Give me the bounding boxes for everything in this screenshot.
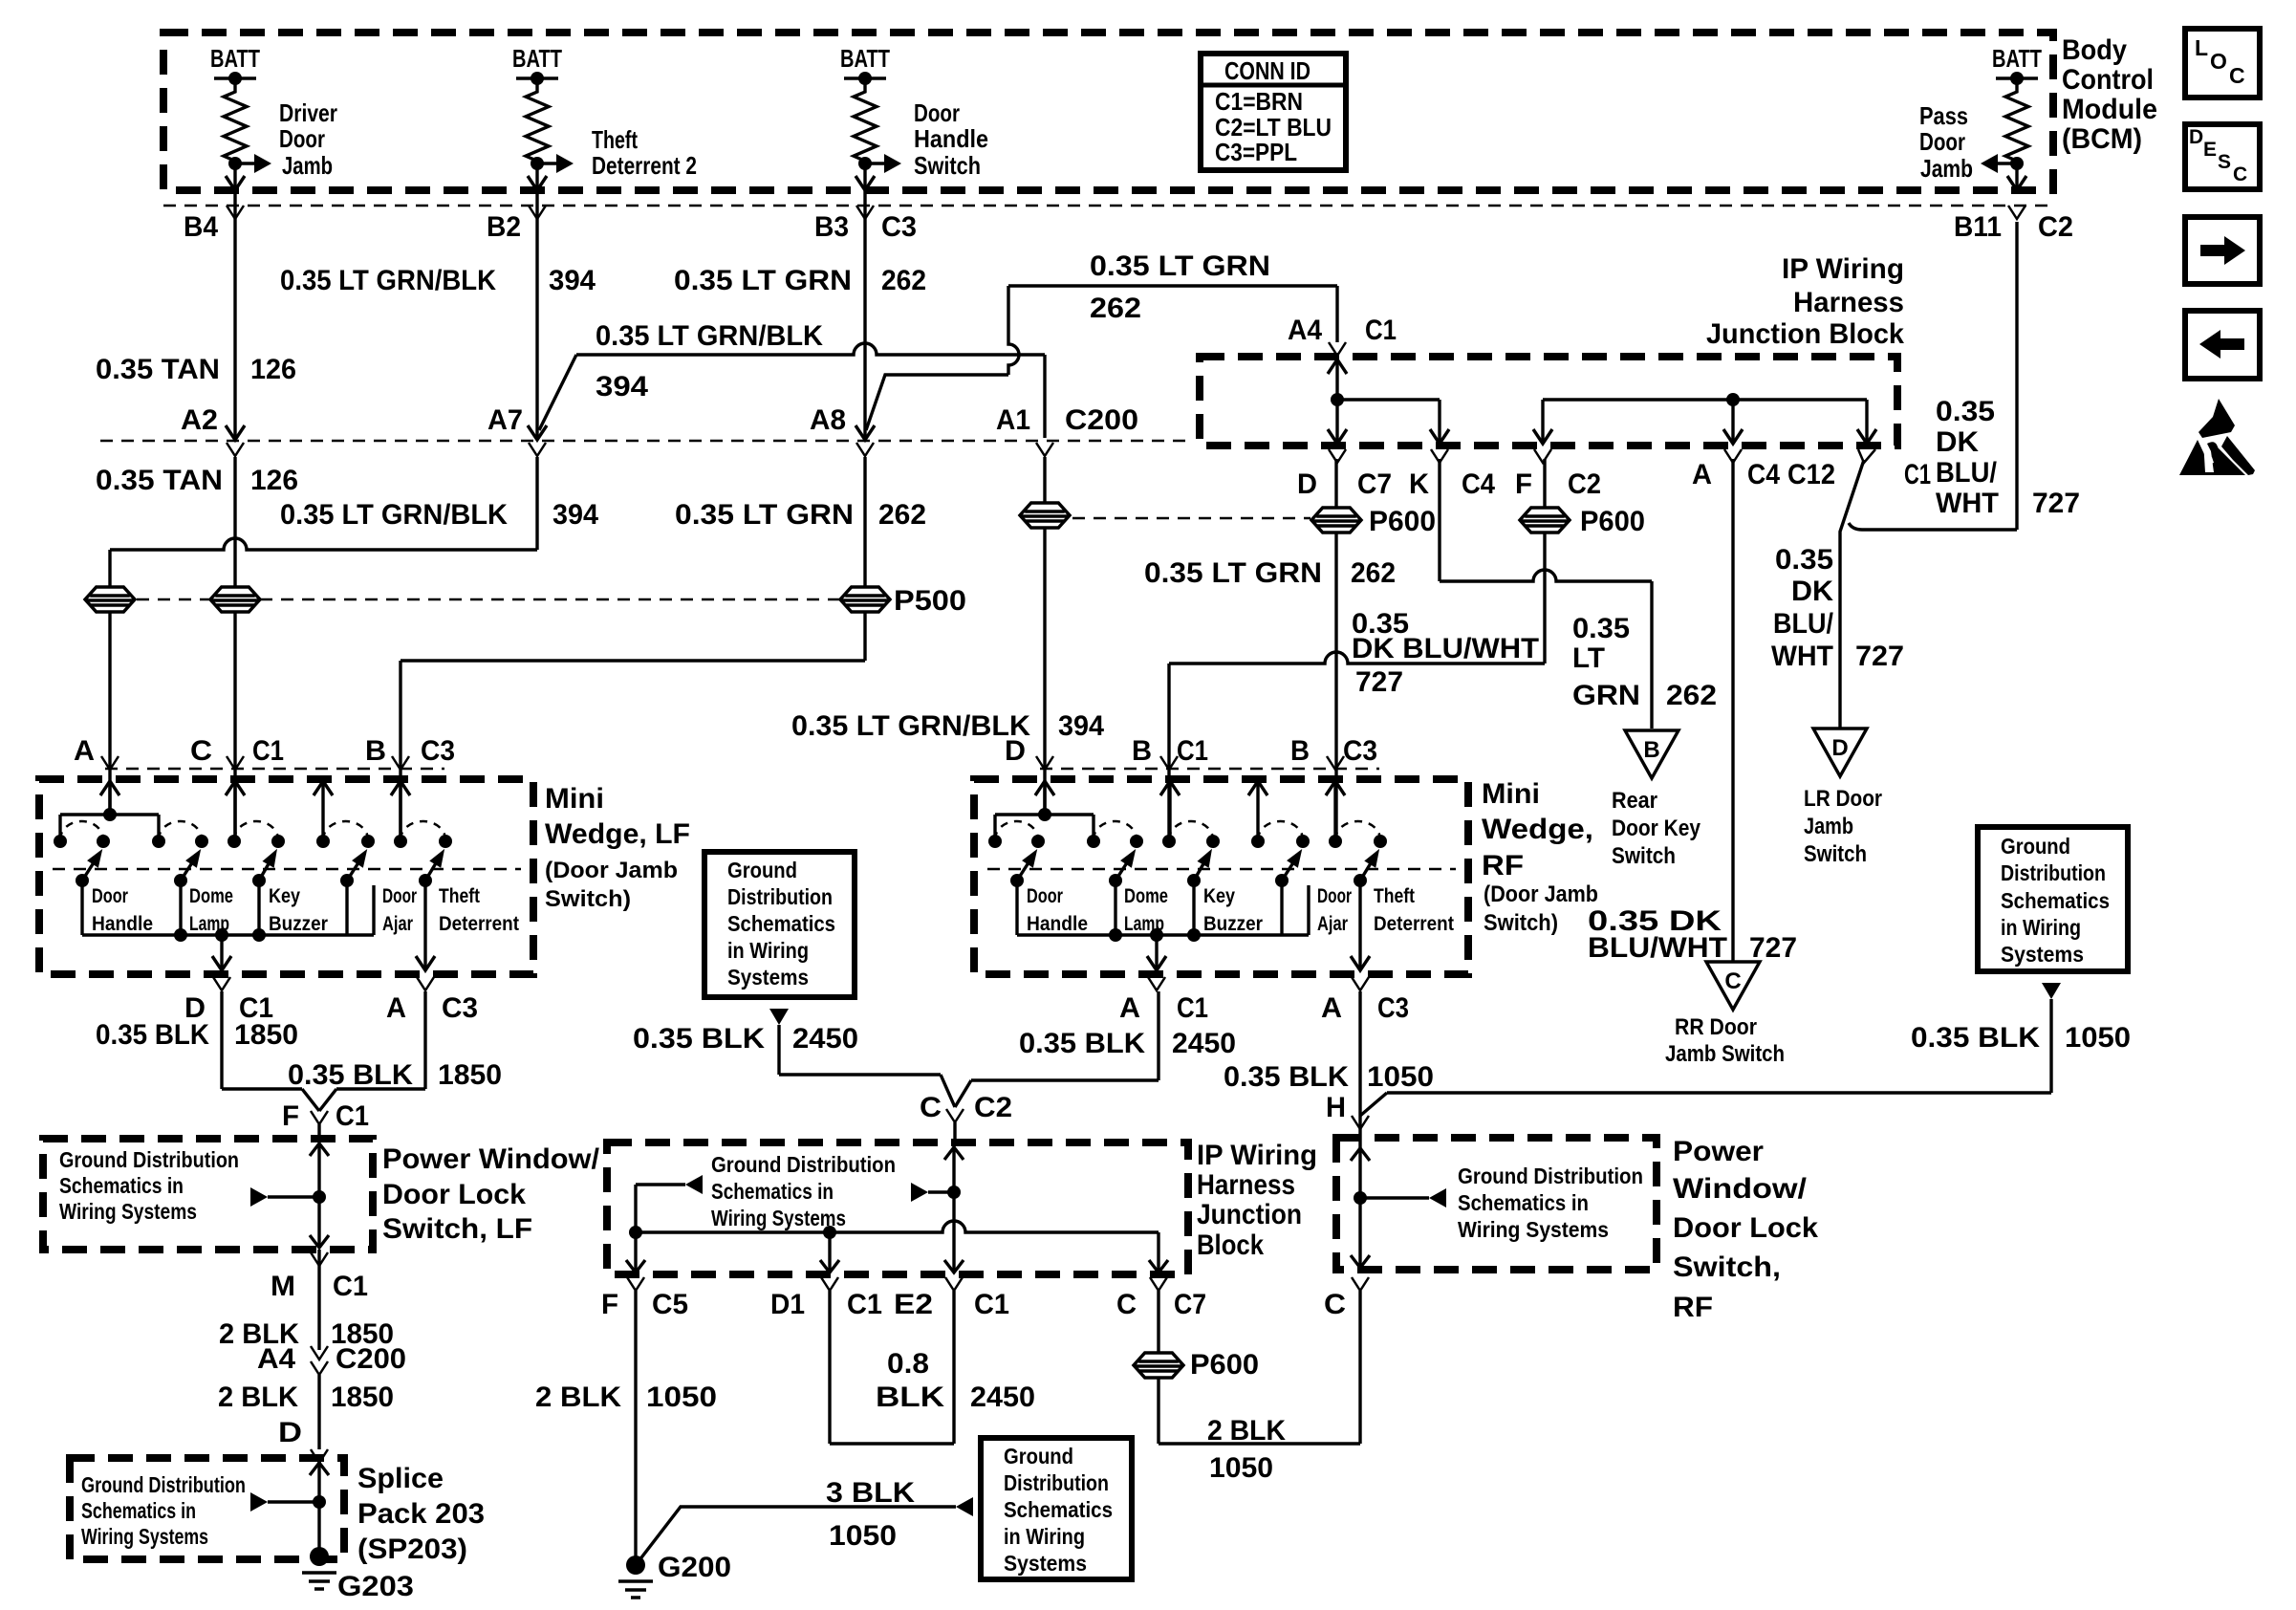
wire B2 down (0.35 LT GRN/BLK 394) xyxy=(535,190,538,438)
svg-text:0.35 BLK: 0.35 BLK xyxy=(288,1059,413,1091)
svg-text:Body: Body xyxy=(2062,34,2127,66)
svg-text:Schematics in: Schematics in xyxy=(81,1498,196,1523)
wire A2 pin down through splice to LF pin C xyxy=(233,457,236,841)
svg-text:727: 727 xyxy=(1355,666,1403,698)
svg-text:Harness: Harness xyxy=(1197,1169,1295,1201)
svg-text:0.35 LT GRN: 0.35 LT GRN xyxy=(1090,250,1270,282)
svg-text:Lamp: Lamp xyxy=(189,913,229,935)
svg-text:WHT: WHT xyxy=(1771,641,1833,672)
svg-text:Handle: Handle xyxy=(1027,913,1088,935)
svg-text:Dome: Dome xyxy=(1124,885,1168,907)
svg-text:C2: C2 xyxy=(974,1092,1012,1123)
door handle switch contacts and lever xyxy=(988,835,1002,848)
svg-text:727: 727 xyxy=(2032,488,2080,519)
svg-text:LR Door: LR Door xyxy=(1804,786,1882,812)
svg-text:Door Lock: Door Lock xyxy=(382,1179,526,1210)
svg-text:Ajar: Ajar xyxy=(382,913,413,935)
svg-text:P600: P600 xyxy=(1369,506,1436,537)
pin entry arrows inside box xyxy=(1035,781,1054,795)
wire B11 down and left to D-wire xyxy=(2015,222,2018,530)
dome lamp switch contacts and lever xyxy=(152,835,165,848)
svg-text:C3: C3 xyxy=(1377,992,1409,1024)
svg-text:B2: B2 xyxy=(487,211,521,243)
theft deterrent switch contacts and lever xyxy=(394,835,407,848)
wire D/C7 down through P600 to RF pin B/C3 xyxy=(1334,459,1337,841)
theft deterrent drop xyxy=(1358,881,1361,968)
svg-text:C1: C1 xyxy=(1365,315,1397,346)
svg-text:C: C xyxy=(2229,63,2245,88)
svg-text:Door: Door xyxy=(1317,885,1352,907)
svg-text:G200: G200 xyxy=(658,1552,731,1583)
svg-text:Switch: Switch xyxy=(1612,843,1676,869)
ground G200 xyxy=(626,1556,645,1575)
svg-text:0.35: 0.35 xyxy=(1775,544,1833,576)
svg-text:Door Key: Door Key xyxy=(1612,816,1701,841)
svg-text:Window/: Window/ xyxy=(1673,1173,1808,1205)
svg-text:Deterrent 2: Deterrent 2 xyxy=(592,151,697,180)
svg-text:2450: 2450 xyxy=(1172,1028,1236,1059)
svg-text:CONN ID: CONN ID xyxy=(1224,56,1310,85)
svg-text:0.35 LT GRN/BLK: 0.35 LT GRN/BLK xyxy=(280,265,496,296)
connector C/C2 xyxy=(946,1109,964,1122)
svg-text:C1: C1 xyxy=(1177,992,1208,1024)
svg-text:C: C xyxy=(2233,163,2247,185)
wire C/C7 through P600 to RF power window box xyxy=(1157,1291,1159,1444)
svg-text:Jamb: Jamb xyxy=(1920,154,1973,183)
svg-text:P500: P500 xyxy=(894,585,966,617)
svg-text:BATT: BATT xyxy=(210,44,260,73)
splice on pin-A wire xyxy=(85,587,135,612)
svg-text:Wiring Systems: Wiring Systems xyxy=(1458,1217,1609,1242)
svg-text:C: C xyxy=(1324,1289,1346,1320)
svg-text:Ground Distribution: Ground Distribution xyxy=(1458,1164,1643,1188)
dome lamp switch contacts and lever xyxy=(1087,835,1100,848)
svg-text:IP Wiring: IP Wiring xyxy=(1782,253,1904,285)
wire F/C2 down through P600, left to RF pin B/C1 xyxy=(1543,459,1546,664)
svg-text:Wiring Systems: Wiring Systems xyxy=(711,1206,846,1230)
wire F/C5 to G200 xyxy=(634,1291,637,1565)
svg-text:RR Door: RR Door xyxy=(1675,1014,1757,1040)
C200 connector row (thin dashed) xyxy=(100,440,1185,443)
wire 0.35 LT GRN/BLK 394: A7 diagonal and horizontal to A1 xyxy=(539,355,576,430)
svg-text:C1: C1 xyxy=(1904,459,1931,490)
Mini Wedge box at dx=0 xyxy=(39,779,533,974)
svg-text:262: 262 xyxy=(878,499,926,531)
svg-text:C7: C7 xyxy=(1174,1289,1206,1320)
svg-text:1050: 1050 xyxy=(1209,1452,1273,1484)
junction block output pins xyxy=(1329,449,1346,463)
IP Wiring Harness Junction Block dashed box xyxy=(1200,357,1897,446)
svg-text:C200: C200 xyxy=(1065,404,1138,436)
svg-text:262: 262 xyxy=(1090,293,1141,324)
svg-text:Switch): Switch) xyxy=(1484,910,1558,936)
svg-text:Switch: Switch xyxy=(1804,841,1867,867)
Mini Wedge box at dx=978 xyxy=(974,779,1468,974)
svg-text:WHT: WHT xyxy=(1936,488,1999,519)
svg-text:A7: A7 xyxy=(487,404,523,436)
svg-text:Harness: Harness xyxy=(1793,287,1904,318)
svg-text:1050: 1050 xyxy=(646,1382,717,1413)
svg-text:A: A xyxy=(74,735,95,767)
right arrow icon xyxy=(2185,217,2260,284)
output tap arrow xyxy=(1155,935,1158,968)
svg-text:0.35 LT GRN/BLK: 0.35 LT GRN/BLK xyxy=(791,710,1030,742)
pivot drops and bottom bus xyxy=(1015,881,1018,935)
svg-text:Key: Key xyxy=(269,885,300,907)
svg-text:Schematics in: Schematics in xyxy=(1458,1190,1589,1215)
svg-text:Power: Power xyxy=(1673,1136,1764,1167)
D triangle: LR Door Jamb Switch xyxy=(1813,729,1867,776)
svg-text:Ground Distribution: Ground Distribution xyxy=(81,1472,246,1497)
svg-text:Junction: Junction xyxy=(1197,1199,1302,1230)
svg-text:Door: Door xyxy=(279,124,325,153)
svg-text:C1: C1 xyxy=(1177,735,1208,767)
svg-text:Schematics in: Schematics in xyxy=(711,1179,834,1204)
svg-text:Rear: Rear xyxy=(1612,788,1657,814)
svg-text:1850: 1850 xyxy=(234,1019,298,1051)
svg-text:Switch,: Switch, xyxy=(1673,1251,1781,1283)
svg-text:1850: 1850 xyxy=(438,1059,502,1091)
svg-text:Schematics in: Schematics in xyxy=(59,1173,184,1198)
svg-text:B11: B11 xyxy=(1954,211,2002,243)
svg-text:RF: RF xyxy=(1673,1292,1713,1323)
svg-text:F: F xyxy=(601,1289,618,1320)
connector M/C1 xyxy=(311,1252,328,1266)
svg-text:Wiring Systems: Wiring Systems xyxy=(59,1199,197,1224)
ground G203 xyxy=(310,1547,329,1566)
svg-text:2450: 2450 xyxy=(792,1023,858,1055)
Ground Distribution box (LF) xyxy=(43,1139,373,1250)
Ground Distribution solid box (bottom right) xyxy=(981,1438,1132,1579)
Mini Wedge LF pin connectors xyxy=(101,756,119,770)
C triangle: RR Door Jamb Switch xyxy=(1706,962,1760,1010)
wire A1/C200 down to Mini Wedge RF pin D xyxy=(1043,457,1046,815)
svg-text:126: 126 xyxy=(250,465,298,496)
D1-E2 ground loop xyxy=(828,1291,831,1444)
E2 wire through box xyxy=(944,1147,964,1160)
svg-text:H: H xyxy=(1326,1092,1346,1123)
svg-text:Jamb: Jamb xyxy=(1804,814,1853,839)
wire from A7 pin down/left to splice and Mini Wedge LF pin A xyxy=(535,457,538,550)
connector row above box xyxy=(1040,768,1379,771)
pin A8 xyxy=(856,443,874,456)
svg-text:B: B xyxy=(1643,737,1659,763)
svg-text:Schematics: Schematics xyxy=(727,911,835,936)
svg-text:262: 262 xyxy=(1666,680,1717,711)
wire into Power Window GD box xyxy=(317,1124,320,1139)
svg-text:in Wiring: in Wiring xyxy=(1004,1524,1085,1549)
svg-text:Door: Door xyxy=(92,885,128,907)
svg-text:Wiring Systems: Wiring Systems xyxy=(81,1524,208,1549)
svg-text:Handle: Handle xyxy=(914,124,988,153)
svg-text:Ground Distribution: Ground Distribution xyxy=(711,1152,896,1177)
svg-text:Schematics: Schematics xyxy=(2001,888,2110,913)
Body Control Module (BCM) dashed box xyxy=(163,33,2053,190)
svg-text:Theft: Theft xyxy=(439,885,480,907)
wire C12/C1 diagonal to D triangle; B11 branch xyxy=(1840,460,1864,729)
svg-text:BATT: BATT xyxy=(840,44,890,73)
svg-text:2 BLK: 2 BLK xyxy=(1207,1415,1286,1447)
far right: 0.35 BLK 1050 wire from reference box to H xyxy=(1978,827,2128,971)
wire A8 pin down through P500, left, down to LF pin B xyxy=(863,457,866,661)
svg-text:2450: 2450 xyxy=(970,1382,1035,1413)
svg-text:0.35 LT GRN/BLK: 0.35 LT GRN/BLK xyxy=(596,320,823,352)
svg-text:C: C xyxy=(1116,1289,1137,1320)
C200 inline connector xyxy=(1020,503,1070,528)
svg-text:394: 394 xyxy=(596,371,648,402)
svg-text:Wedge,: Wedge, xyxy=(1482,814,1593,845)
pin entry arrows inside box xyxy=(100,781,119,795)
svg-text:Driver: Driver xyxy=(279,98,337,127)
svg-text:0.35 BLK: 0.35 BLK xyxy=(633,1023,765,1055)
svg-text:Pass: Pass xyxy=(1919,101,1968,130)
svg-text:F: F xyxy=(282,1100,299,1132)
connector A4 / C1 xyxy=(1329,342,1346,356)
svg-text:Ajar: Ajar xyxy=(1317,913,1348,935)
3 BLK 1050 wire to reference box xyxy=(636,1507,956,1565)
svg-text:LT: LT xyxy=(1572,642,1605,674)
svg-text:A: A xyxy=(1692,459,1712,490)
svg-text:2 BLK: 2 BLK xyxy=(535,1382,621,1413)
svg-text:Junction Block: Junction Block xyxy=(1706,318,1904,350)
wire to C/C2 funnel xyxy=(779,1073,941,1076)
svg-text:Switch): Switch) xyxy=(545,886,631,912)
svg-text:Mini: Mini xyxy=(545,783,604,815)
svg-text:Ground Distribution: Ground Distribution xyxy=(59,1147,239,1172)
Mini Wedge RF pin connectors xyxy=(1036,756,1053,770)
pin A2 xyxy=(227,443,244,456)
svg-text:0.35 LT GRN: 0.35 LT GRN xyxy=(1144,557,1322,589)
svg-text:BATT: BATT xyxy=(512,44,562,73)
ESD warning symbol xyxy=(2199,399,2235,438)
svg-text:C1: C1 xyxy=(336,1100,369,1132)
svg-text:B4: B4 xyxy=(184,211,218,243)
svg-text:Schematics: Schematics xyxy=(1004,1497,1113,1522)
svg-text:Lamp: Lamp xyxy=(1124,913,1164,935)
svg-text:E2: E2 xyxy=(894,1289,933,1320)
svg-text:Switch, LF: Switch, LF xyxy=(382,1213,532,1245)
BCM pin B11 / C2 xyxy=(2008,206,2025,219)
svg-text:0.35: 0.35 xyxy=(1936,396,1995,427)
svg-text:Deterrent: Deterrent xyxy=(1374,913,1454,935)
svg-text:Buzzer: Buzzer xyxy=(1203,913,1263,935)
svg-text:0.35 BLK: 0.35 BLK xyxy=(1224,1061,1349,1093)
svg-text:A: A xyxy=(1119,992,1140,1024)
svg-text:0.35 TAN: 0.35 TAN xyxy=(96,354,220,385)
svg-text:0.35 LT GRN: 0.35 LT GRN xyxy=(675,499,854,531)
CONN ID box xyxy=(1201,54,1346,170)
svg-text:Theft: Theft xyxy=(592,125,638,154)
RF Ground Distribution dashed box xyxy=(1336,1138,1657,1270)
svg-text:Jamb: Jamb xyxy=(282,151,333,180)
wire B3 down (0.35 LT GRN 262) xyxy=(863,190,866,438)
svg-text:Splice: Splice xyxy=(357,1463,444,1494)
svg-text:C: C xyxy=(190,735,212,767)
down triangle below box xyxy=(769,1009,789,1025)
svg-text:C1: C1 xyxy=(974,1289,1009,1320)
LOC icon xyxy=(2185,29,2260,98)
svg-text:B3: B3 xyxy=(814,211,849,243)
connector row above box xyxy=(105,768,444,771)
P500 dashed line xyxy=(137,598,210,601)
svg-text:Distribution: Distribution xyxy=(727,884,833,909)
junction block internal wires xyxy=(1328,359,1347,374)
key buzzer switch contacts and lever xyxy=(1162,835,1176,848)
svg-text:D: D xyxy=(278,1417,302,1448)
svg-text:D: D xyxy=(1005,735,1026,767)
svg-text:2 BLK: 2 BLK xyxy=(218,1382,298,1413)
svg-text:727: 727 xyxy=(1855,641,1904,672)
svg-text:Buzzer: Buzzer xyxy=(269,913,328,935)
svg-text:C1: C1 xyxy=(847,1289,882,1320)
door handle switch contacts and lever xyxy=(54,835,67,848)
wire K/C4 right and down to B triangle xyxy=(1438,459,1440,581)
svg-text:Switch: Switch xyxy=(914,151,981,180)
BCM pin B4 xyxy=(227,206,244,219)
svg-text:Pack 203: Pack 203 xyxy=(357,1498,485,1530)
svg-text:Door: Door xyxy=(1919,127,1965,156)
svg-text:S: S xyxy=(2218,151,2231,173)
svg-text:Door: Door xyxy=(914,98,960,127)
svg-text:A4: A4 xyxy=(1288,315,1322,346)
theft deterrent drop xyxy=(423,881,426,968)
inner dashed line xyxy=(53,868,521,871)
svg-text:DK: DK xyxy=(1791,576,1833,607)
Splice Pack 203 box xyxy=(70,1458,344,1559)
splice on A2 wire xyxy=(210,587,260,612)
output connectors below box xyxy=(213,977,230,990)
svg-text:A: A xyxy=(1321,992,1342,1024)
svg-text:C3: C3 xyxy=(421,735,455,767)
BCM pin B2 xyxy=(529,206,546,219)
svg-text:F: F xyxy=(1515,468,1532,500)
Ground Distribution solid box (middle) xyxy=(704,852,855,997)
svg-text:A: A xyxy=(386,992,406,1024)
svg-text:G203: G203 xyxy=(337,1571,414,1602)
ground bus inside box xyxy=(636,1221,1159,1232)
svg-text:Deterrent: Deterrent xyxy=(439,913,519,935)
LF output merge to F/C1 xyxy=(220,991,223,1089)
svg-text:C1: C1 xyxy=(333,1271,368,1302)
svg-text:D: D xyxy=(1831,735,1848,761)
svg-text:BATT: BATT xyxy=(1992,44,2042,73)
wire 0.35 LT GRN 262 from A8 up to A4/C1 xyxy=(866,375,1008,430)
svg-text:394: 394 xyxy=(549,265,596,296)
key buzzer switch contacts and lever xyxy=(227,835,241,848)
svg-text:C12: C12 xyxy=(1787,459,1835,490)
svg-text:D: D xyxy=(2189,126,2203,148)
svg-text:P600: P600 xyxy=(1580,506,1645,537)
svg-text:C3=PPL: C3=PPL xyxy=(1215,138,1297,166)
svg-text:126: 126 xyxy=(250,354,296,385)
svg-text:Systems: Systems xyxy=(2001,942,2084,967)
svg-text:P600: P600 xyxy=(1190,1349,1259,1381)
svg-text:Jamb Switch: Jamb Switch xyxy=(1665,1041,1785,1067)
svg-text:BLU/WHT: BLU/WHT xyxy=(1588,932,1727,964)
inner dashed line xyxy=(987,868,1456,871)
svg-text:1050: 1050 xyxy=(829,1520,897,1552)
svg-text:A4: A4 xyxy=(257,1343,295,1375)
svg-text:Ground: Ground xyxy=(1004,1444,1073,1469)
svg-text:0.35 BLK: 0.35 BLK xyxy=(96,1019,209,1051)
svg-text:D: D xyxy=(1297,468,1317,500)
svg-text:C1=BRN: C1=BRN xyxy=(1215,87,1303,116)
svg-text:BLK: BLK xyxy=(876,1382,944,1413)
svg-text:C5: C5 xyxy=(652,1289,688,1320)
svg-text:A8: A8 xyxy=(810,404,846,436)
svg-text:0.35 BLK: 0.35 BLK xyxy=(1911,1022,2040,1054)
output tap arrow xyxy=(220,935,223,968)
svg-text:L: L xyxy=(2195,35,2208,60)
svg-text:Ground: Ground xyxy=(2001,834,2070,859)
svg-text:3 BLK: 3 BLK xyxy=(826,1477,915,1509)
svg-text:Module: Module xyxy=(2062,94,2157,125)
svg-text:Handle: Handle xyxy=(92,913,153,935)
pin A1 / C200 xyxy=(1036,443,1053,456)
svg-text:262: 262 xyxy=(881,265,926,296)
left stub with left-pointing ref arrow xyxy=(636,1183,685,1186)
svg-text:RF: RF xyxy=(1482,850,1524,881)
pins below middle box xyxy=(627,1277,644,1291)
svg-text:Block: Block xyxy=(1197,1229,1264,1261)
svg-text:C4: C4 xyxy=(1747,459,1780,490)
svg-text:C7: C7 xyxy=(1357,468,1392,500)
dashed line from C200 to P600 xyxy=(1072,517,1310,520)
svg-text:C1: C1 xyxy=(252,735,284,767)
svg-text:0.35 LT GRN: 0.35 LT GRN xyxy=(674,265,852,296)
svg-text:Control: Control xyxy=(2062,64,2154,96)
svg-text:(SP203): (SP203) xyxy=(357,1534,467,1565)
svg-text:0.35 TAN: 0.35 TAN xyxy=(96,465,223,496)
svg-text:0.35: 0.35 xyxy=(1572,613,1630,644)
svg-text:M: M xyxy=(271,1271,295,1302)
svg-text:DK BLU/WHT: DK BLU/WHT xyxy=(1352,633,1539,664)
svg-text:Systems: Systems xyxy=(1004,1551,1087,1576)
svg-text:C3: C3 xyxy=(881,211,917,243)
svg-text:BLU/: BLU/ xyxy=(1936,457,1998,489)
left arrow icon xyxy=(2185,311,2260,379)
BCM connector face (thin dashed line) xyxy=(163,205,2053,207)
svg-text:B: B xyxy=(1132,735,1152,767)
door ajar switch contacts and lever xyxy=(1251,835,1265,848)
svg-text:Systems: Systems xyxy=(727,965,809,990)
svg-text:1050: 1050 xyxy=(2065,1022,2131,1054)
svg-text:D1: D1 xyxy=(770,1289,805,1320)
svg-text:Door: Door xyxy=(382,885,417,907)
svg-text:C: C xyxy=(920,1092,942,1123)
svg-text:in Wiring: in Wiring xyxy=(727,938,809,963)
svg-text:E: E xyxy=(2203,139,2217,161)
svg-text:DK: DK xyxy=(1936,426,1979,458)
BCM pin B3 / C3 xyxy=(856,206,874,219)
svg-text:262: 262 xyxy=(1351,557,1396,589)
svg-text:Distribution: Distribution xyxy=(2001,860,2106,885)
svg-text:A1: A1 xyxy=(996,404,1030,436)
svg-text:Door: Door xyxy=(1027,885,1063,907)
svg-text:O: O xyxy=(2210,49,2227,74)
svg-text:C4: C4 xyxy=(1462,468,1495,500)
svg-text:Key: Key xyxy=(1203,885,1235,907)
svg-text:Ground: Ground xyxy=(727,858,797,882)
P500 connector xyxy=(840,587,890,612)
svg-text:C2: C2 xyxy=(1568,468,1601,500)
output connectors below box xyxy=(1148,977,1165,990)
svg-text:Power Window/: Power Window/ xyxy=(382,1143,600,1175)
svg-text:B: B xyxy=(1290,735,1310,767)
pin feeds inside box xyxy=(108,781,111,815)
svg-text:GRN: GRN xyxy=(1572,680,1640,711)
svg-text:1850: 1850 xyxy=(331,1382,394,1413)
